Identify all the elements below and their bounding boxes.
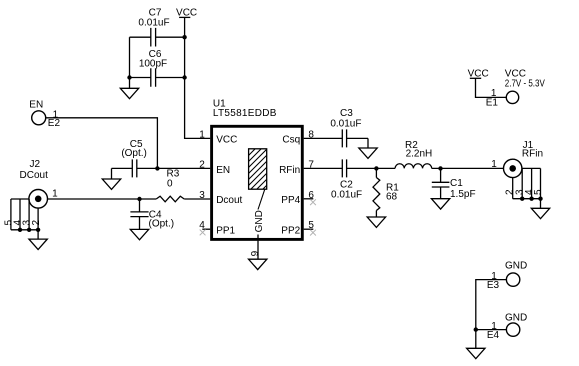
svg-text:68: 68 xyxy=(386,191,398,202)
svg-text:6: 6 xyxy=(308,190,314,201)
svg-text:VCC: VCC xyxy=(216,135,237,146)
svg-text:0.01uF: 0.01uF xyxy=(331,189,362,200)
svg-text:RFin: RFin xyxy=(522,149,543,160)
svg-text:2: 2 xyxy=(199,160,205,171)
svg-text:Dcout: Dcout xyxy=(216,195,242,206)
svg-text:0.01uF: 0.01uF xyxy=(138,18,169,29)
svg-text:GND: GND xyxy=(254,210,265,232)
svg-text:(Opt.): (Opt.) xyxy=(149,218,175,229)
svg-text:1: 1 xyxy=(52,189,58,200)
svg-text:GND: GND xyxy=(505,260,527,271)
svg-text:E2: E2 xyxy=(48,118,61,129)
svg-text:PP4: PP4 xyxy=(281,195,300,206)
svg-text:DCout: DCout xyxy=(20,170,49,181)
svg-text:3: 3 xyxy=(199,190,205,201)
svg-text:E4: E4 xyxy=(487,330,500,341)
svg-text:GND: GND xyxy=(505,312,527,323)
svg-text:100pF: 100pF xyxy=(139,59,167,70)
svg-text:1: 1 xyxy=(199,129,205,140)
svg-text:EN: EN xyxy=(29,99,43,110)
svg-text:C1: C1 xyxy=(450,178,463,189)
svg-text:J2: J2 xyxy=(30,159,41,170)
svg-text:E1: E1 xyxy=(486,97,499,108)
svg-text:1.5pF: 1.5pF xyxy=(450,189,476,200)
svg-text:EN: EN xyxy=(216,165,230,176)
svg-text:RFin: RFin xyxy=(279,165,300,176)
svg-text:9: 9 xyxy=(250,250,261,256)
svg-text:(Opt.): (Opt.) xyxy=(121,148,147,159)
svg-text:0: 0 xyxy=(167,179,173,190)
svg-text:2: 2 xyxy=(31,219,42,225)
svg-text:Csq: Csq xyxy=(282,135,300,146)
svg-text:2.7V - 5.3V: 2.7V - 5.3V xyxy=(505,78,545,89)
svg-text:PP1: PP1 xyxy=(216,225,235,236)
svg-text:1: 1 xyxy=(491,159,497,170)
svg-text:LT5581EDDB: LT5581EDDB xyxy=(213,108,277,119)
svg-text:0.01uF: 0.01uF xyxy=(330,118,361,129)
svg-text:PP2: PP2 xyxy=(281,225,300,236)
svg-text:5: 5 xyxy=(533,189,544,195)
svg-text:E3: E3 xyxy=(487,280,500,291)
svg-text:2.2nH: 2.2nH xyxy=(406,149,433,160)
